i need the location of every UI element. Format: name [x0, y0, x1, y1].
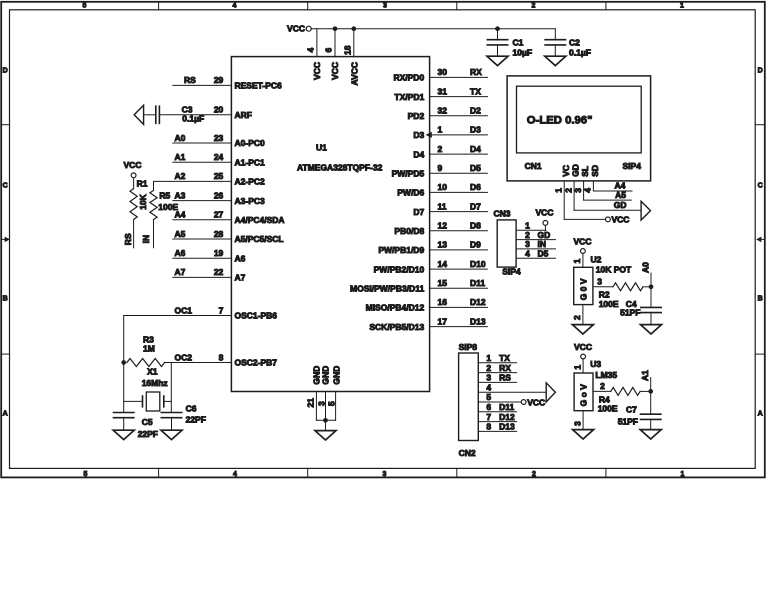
svg-text:15: 15	[438, 278, 448, 288]
svg-text:28: 28	[214, 229, 224, 239]
svg-text:VCC: VCC	[124, 160, 142, 170]
capacitor C3 0.1uF	[156, 106, 204, 123]
svg-text:GND: GND	[331, 366, 341, 385]
U2 pin number 2 (rotated)	[572, 315, 582, 320]
junction A1/C7	[648, 389, 653, 394]
svg-text:25: 25	[214, 171, 224, 181]
CN1 pin 4 wire (SD) to A4	[593, 181, 632, 191]
wire: VCC rail horizontal	[311, 28, 555, 30]
wire: U1 pin 5 GND drop	[335, 392, 337, 421]
U1 right pin 15 MOSI/PW/PB3/D11 / net D11	[350, 278, 487, 293]
ground below C7	[640, 430, 661, 439]
svg-text:3: 3	[572, 421, 582, 426]
pin number 18	[343, 45, 353, 55]
power flag VCC (U2)	[574, 236, 592, 253]
svg-text:2: 2	[532, 2, 536, 9]
wire: GND bus joining	[316, 419, 335, 421]
output port arrow (GD)	[641, 201, 650, 220]
CN2 pin 7 wire	[478, 412, 516, 422]
svg-text:SIP4: SIP4	[623, 161, 642, 171]
svg-text:VCC: VCC	[287, 24, 305, 34]
CN1 pin number 2 (rotated)	[563, 188, 573, 193]
ground below C1	[487, 56, 508, 65]
U1 left pin 19 A6 / net A6	[173, 248, 246, 263]
svg-text:VCC: VCC	[574, 236, 592, 246]
net label GD	[614, 200, 627, 210]
CN3 reference label	[494, 209, 511, 219]
outer border frame	[1, 2, 765, 478]
U3 value label LM35	[595, 370, 617, 380]
svg-text:A3-PC3: A3-PC3	[235, 196, 266, 206]
CN3 pin 4 wire	[516, 248, 555, 258]
svg-text:LM35: LM35	[595, 370, 617, 380]
wire: A2 line corner to R5	[153, 181, 155, 190]
capacitor C1	[487, 26, 532, 57]
svg-text:11: 11	[438, 201, 447, 211]
svg-text:D13: D13	[470, 316, 486, 326]
svg-text:D13: D13	[499, 422, 515, 432]
U3 pin number 1 (rotated)	[572, 365, 582, 370]
net label A4	[615, 181, 626, 191]
svg-text:B: B	[3, 295, 8, 302]
border row letters right	[758, 68, 763, 418]
svg-text:0.1µF: 0.1µF	[569, 48, 591, 58]
svg-text:2: 2	[572, 315, 582, 320]
svg-text:D: D	[3, 68, 8, 75]
inner border frame	[10, 10, 756, 469]
svg-text:1: 1	[680, 2, 684, 9]
svg-text:4: 4	[525, 248, 530, 258]
U1 reference label	[316, 143, 327, 153]
CN1 pin name VC (rotated)	[561, 165, 571, 177]
svg-text:A0: A0	[640, 262, 650, 273]
svg-text:A5/PC5/SCL: A5/PC5/SCL	[235, 234, 284, 244]
svg-text:C1: C1	[513, 38, 524, 48]
U1 right pin 11 D7 / net D7	[413, 201, 487, 216]
CN1 SIP4 label	[623, 161, 642, 171]
svg-text:A2-PC2: A2-PC2	[235, 177, 266, 187]
svg-text:7: 7	[219, 305, 224, 315]
U1 right pin 14 PW/PB2/D10 / net D10	[374, 259, 488, 274]
U1 pin name VCC (pin6, rotated)	[330, 62, 340, 80]
net label A1 (rotated)	[640, 370, 651, 392]
svg-text:SIP8: SIP8	[459, 342, 478, 352]
svg-text:B: B	[758, 295, 763, 302]
O-LED screen inner box	[517, 86, 642, 153]
wire: R5 to IN stub	[153, 220, 155, 248]
svg-text:A0: A0	[175, 133, 186, 143]
svg-text:1: 1	[438, 125, 443, 135]
border column numbers top	[83, 2, 685, 9]
svg-text:1M: 1M	[143, 344, 155, 354]
svg-text:D12: D12	[470, 297, 486, 307]
svg-text:GD: GD	[571, 164, 581, 177]
svg-text:18: 18	[343, 45, 353, 55]
svg-text:2: 2	[486, 363, 491, 373]
svg-text:16Mhz: 16Mhz	[142, 378, 168, 388]
connector CN3 body	[497, 220, 516, 267]
svg-text:R5: R5	[159, 190, 170, 200]
O-LED title	[527, 114, 593, 126]
svg-text:100E: 100E	[598, 404, 618, 414]
CN1 reference label	[525, 161, 542, 171]
svg-text:22PF: 22PF	[186, 415, 206, 425]
svg-text:VCC: VCC	[527, 397, 545, 407]
CN2 pin 5 wire	[478, 392, 521, 402]
svg-text:PB0/D8: PB0/D8	[394, 226, 424, 236]
svg-text:D6: D6	[470, 182, 481, 192]
CN2 SIP8 label	[459, 342, 478, 352]
svg-text:A0-PC0: A0-PC0	[235, 138, 266, 148]
svg-text:1: 1	[572, 365, 582, 370]
svg-text:A: A	[758, 411, 763, 418]
svg-text:RS: RS	[499, 373, 511, 383]
svg-text:RX: RX	[470, 67, 482, 77]
output port arrow (CN2 pin4)	[546, 383, 555, 402]
svg-text:D4: D4	[470, 144, 481, 154]
U1 right pin 12 PB0/D8 / net D8	[394, 221, 487, 236]
power flag VCC (U3)	[574, 342, 592, 359]
svg-text:22PF: 22PF	[138, 429, 158, 439]
U1 right pin 10 PW/D6 / net D6	[397, 182, 487, 197]
CN3 pin 3 wire	[516, 239, 555, 249]
U1 left pin 22 A7 / net A7	[173, 267, 246, 282]
svg-text:GD: GD	[614, 200, 627, 210]
svg-text:4: 4	[306, 48, 316, 53]
svg-text:VCC: VCC	[612, 215, 630, 225]
wire: U1 pin 3 GND drop	[325, 392, 327, 421]
svg-text:U2: U2	[591, 254, 602, 264]
svg-text:10K: 10K	[138, 193, 148, 209]
svg-text:17: 17	[438, 316, 448, 326]
svg-text:OC2: OC2	[175, 352, 193, 362]
svg-text:32: 32	[438, 106, 448, 116]
U1 pin name GND (pin21, rotated)	[312, 366, 322, 385]
U1 left pin 25 A2-PC2 / net A2	[154, 171, 266, 186]
svg-text:C: C	[3, 183, 8, 190]
svg-text:24: 24	[214, 152, 224, 162]
border center arrow right	[756, 237, 765, 243]
svg-text:CN3: CN3	[494, 209, 511, 219]
CN2 pin 4 wire	[478, 382, 546, 392]
svg-text:TX/PD1: TX/PD1	[394, 92, 424, 102]
crystal X1 16Mhz	[124, 366, 172, 411]
svg-text:3: 3	[383, 471, 387, 478]
U1 right pin 9 PW/PD5 / net D5	[392, 163, 488, 178]
capacitor C2	[545, 29, 591, 58]
wire: VCC to R1	[133, 178, 135, 189]
svg-text:VCC: VCC	[312, 62, 322, 80]
svg-text:D5: D5	[470, 163, 481, 173]
svg-text:16: 16	[438, 297, 448, 307]
svg-text:VCC: VCC	[574, 342, 592, 352]
CN3 pin 2 wire	[516, 230, 555, 240]
ground symbol under U1	[315, 431, 336, 440]
svg-text:29: 29	[214, 75, 224, 85]
CN2 pin 8 wire	[478, 422, 516, 432]
resistor R5 100E	[150, 190, 179, 219]
svg-text:X1: X1	[147, 366, 158, 376]
svg-text:D12: D12	[499, 412, 515, 422]
svg-text:MISO/PB4/D12: MISO/PB4/D12	[366, 303, 425, 313]
wire: drop to U1 pin 18	[353, 29, 355, 57]
wire: OSC2 vertical to C6	[170, 363, 172, 413]
CN2 pin 3 wire	[478, 373, 516, 383]
svg-text:5: 5	[486, 392, 491, 402]
svg-text:A4: A4	[615, 181, 626, 191]
U2 pin 3 wire	[593, 277, 613, 287]
junction at pin 6 drop	[333, 26, 338, 31]
svg-text:G o V: G o V	[579, 384, 589, 407]
svg-text:3: 3	[383, 2, 387, 9]
U1 pin name GND (pin5, rotated)	[331, 366, 341, 385]
svg-text:51PF: 51PF	[620, 308, 640, 318]
svg-text:1: 1	[572, 259, 582, 264]
U3 pin number 3 (rotated)	[572, 421, 582, 426]
power flag VCC (CN1)	[606, 215, 630, 225]
svg-text:VCC: VCC	[330, 62, 340, 80]
wire: U1 pin 21 GND drop	[315, 392, 317, 421]
svg-text:RX/PD0: RX/PD0	[393, 73, 424, 83]
U1 left pin 28 A5/PC5/SCL / net A5	[173, 229, 284, 244]
svg-text:D3: D3	[413, 130, 424, 140]
border column numbers bottom	[84, 471, 685, 478]
U2 pin 2 wire to ground	[582, 305, 584, 325]
svg-text:ATMEGA328TQPF-32: ATMEGA328TQPF-32	[297, 162, 383, 172]
svg-text:GND: GND	[321, 366, 331, 385]
U2 value label 10K POT	[596, 264, 632, 274]
U1 right pin 30 RX/PD0 / net RX	[393, 67, 487, 82]
U1 left pin 27 A4/PC4/SDA / net A4	[173, 210, 285, 225]
connector CN2 body	[459, 353, 479, 441]
svg-text:8: 8	[486, 422, 491, 432]
input port arrow (ARF)	[134, 105, 143, 124]
svg-text:5: 5	[83, 2, 87, 9]
svg-text:26: 26	[214, 190, 224, 200]
svg-text:RS: RS	[184, 75, 196, 85]
svg-text:D3: D3	[470, 125, 481, 135]
CN1 pin number 4 (rotated)	[583, 188, 593, 193]
wire: drop to U1 pin 6	[334, 29, 336, 57]
svg-text:C2: C2	[569, 38, 580, 48]
svg-text:20: 20	[214, 105, 224, 115]
svg-text:C7: C7	[626, 405, 637, 415]
svg-text:2: 2	[600, 381, 605, 391]
CN1 pin 2 wire (GD)	[574, 181, 641, 210]
CN1 pin name SD (rotated)	[590, 165, 600, 177]
svg-text:0.1µF: 0.1µF	[182, 114, 204, 124]
U1 pin name GND (pin3, rotated)	[321, 366, 331, 385]
svg-text:MOSI/PW/PB3/D11: MOSI/PW/PB3/D11	[350, 284, 424, 294]
svg-text:R1: R1	[137, 178, 148, 188]
svg-text:4: 4	[233, 2, 237, 9]
net label A5	[615, 190, 626, 200]
CN2 pin 6 wire	[478, 402, 516, 412]
svg-text:D5: D5	[538, 248, 549, 258]
U1 left pin 20 ARF	[159, 105, 252, 120]
power flag VCC (CN3 pin1)	[536, 207, 554, 230]
svg-text:3: 3	[573, 188, 583, 193]
svg-text:PW/PB1/D9: PW/PB1/D9	[378, 245, 424, 255]
svg-text:1: 1	[553, 188, 563, 193]
svg-text:SD: SD	[590, 165, 600, 177]
U1 right pin 31 TX/PD1 / net TX	[394, 86, 487, 101]
CN1 pin 3 wire (SL) to A5	[584, 181, 632, 200]
svg-text:D9: D9	[470, 240, 481, 250]
svg-text:7: 7	[486, 412, 491, 422]
svg-text:4: 4	[486, 382, 491, 392]
svg-text:D4: D4	[413, 149, 424, 159]
svg-text:U1: U1	[316, 143, 327, 153]
CN1 pin 1 wire (VC) to VCC	[564, 181, 605, 220]
U1 right pin 16 MISO/PB4/D12 / net D12	[366, 297, 488, 312]
svg-text:31: 31	[438, 86, 448, 96]
svg-text:ARF: ARF	[235, 110, 252, 120]
U2 reference label	[591, 254, 602, 264]
svg-text:RX: RX	[499, 363, 511, 373]
svg-text:C6: C6	[186, 403, 197, 413]
U1 right pin 2 D4 / net D4	[413, 144, 487, 159]
svg-text:VC: VC	[561, 165, 571, 177]
svg-text:A7: A7	[175, 267, 186, 277]
U1 right pin 1 D3 / net D3	[413, 125, 487, 140]
ground below C2	[545, 56, 566, 65]
wire: VCC to U2 pin1	[582, 253, 584, 267]
svg-text:U3: U3	[590, 359, 601, 369]
svg-text:D11: D11	[499, 402, 514, 412]
U3 pin 3 wire to ground	[582, 411, 584, 430]
svg-text:10K POT: 10K POT	[596, 264, 632, 274]
svg-text:5: 5	[84, 471, 88, 478]
svg-text:1: 1	[681, 471, 685, 478]
U1 left pin 23 A0-PC0 / net A0	[173, 133, 265, 148]
wire: R1 to RS stub	[133, 220, 135, 248]
CN1 pin name SL (rotated)	[580, 166, 590, 177]
svg-text:2: 2	[532, 471, 536, 478]
svg-text:A6: A6	[235, 253, 246, 263]
svg-text:2: 2	[563, 188, 573, 193]
svg-text:OSC2-PB7: OSC2-PB7	[235, 358, 278, 368]
svg-text:RESET-PC6: RESET-PC6	[235, 81, 283, 91]
svg-text:D10: D10	[470, 259, 486, 269]
svg-text:A1-PC1: A1-PC1	[235, 157, 266, 167]
svg-text:AVCC: AVCC	[350, 62, 360, 85]
svg-text:8: 8	[219, 352, 224, 362]
net label IN (rotated)	[141, 235, 151, 244]
CN2 pin 1 wire	[478, 353, 516, 363]
pin number 3 (rotated)	[316, 401, 326, 406]
svg-text:6: 6	[486, 402, 491, 412]
svg-text:1: 1	[486, 353, 491, 363]
svg-text:A1: A1	[175, 152, 186, 162]
wire: drop to U1 pin 4	[316, 29, 318, 57]
junction R3/OSC rail	[121, 360, 126, 365]
svg-text:27: 27	[214, 210, 224, 220]
capacitor C5 22PF	[114, 413, 159, 440]
svg-text:21: 21	[305, 398, 315, 408]
junction A0/C4	[649, 284, 654, 289]
sensor U3 body	[574, 373, 593, 411]
svg-text:A4/PC4/SDA: A4/PC4/SDA	[235, 215, 285, 225]
net label RS (rotated)	[123, 233, 133, 245]
U1 left pin 24 A1-PC1 / net A1	[173, 152, 265, 167]
svg-text:2: 2	[438, 144, 443, 154]
U1 left pin 26 A3-PC3 / net A3	[173, 190, 265, 205]
svg-text:A1: A1	[640, 370, 650, 381]
svg-text:D: D	[758, 68, 763, 75]
CN1 pin name GD (rotated)	[571, 164, 581, 177]
CN2 reference label	[459, 448, 476, 458]
svg-text:CN2: CN2	[459, 448, 476, 458]
U1 right pin 32 PD2 / net D2	[408, 106, 488, 121]
svg-text:10: 10	[438, 182, 448, 192]
pin number 6	[324, 48, 334, 53]
pin number 21 (rotated)	[305, 398, 315, 408]
svg-text:G 0 V: G 0 V	[578, 278, 588, 300]
ground below C6	[161, 430, 182, 439]
svg-text:PD2: PD2	[408, 111, 425, 121]
resistor R3 1M	[127, 334, 165, 366]
svg-text:A5: A5	[175, 229, 186, 239]
U1 pin name VCC (pin4, rotated)	[312, 62, 322, 80]
border center arrow left	[1, 237, 10, 243]
CN1 pin number 3 (rotated)	[573, 188, 583, 193]
svg-text:PW/PB2/D10: PW/PB2/D10	[374, 264, 425, 274]
svg-text:VCC: VCC	[536, 207, 554, 217]
U1 left pin 7 OSC1-PB6 / net OC1	[124, 305, 278, 320]
junction at pin 18 drop	[351, 26, 356, 31]
svg-text:SIP4: SIP4	[502, 266, 521, 276]
svg-text:TX: TX	[470, 86, 481, 96]
svg-text:A7: A7	[235, 273, 246, 283]
net label A0 (rotated)	[640, 262, 651, 287]
svg-text:A3: A3	[175, 190, 186, 200]
svg-text:PW/D6: PW/D6	[397, 188, 424, 198]
ground below C4	[641, 325, 662, 334]
U1 pin name AVCC (pin18, rotated)	[350, 62, 360, 85]
svg-text:A6: A6	[175, 248, 186, 258]
wire: VCC to U3 pin1	[582, 359, 584, 373]
svg-text:9: 9	[438, 163, 443, 173]
capacitor C6 22PF	[161, 403, 206, 430]
svg-text:3: 3	[597, 277, 602, 287]
IC U1 ATMEGA328TQPF-32 body	[231, 57, 429, 392]
resistor R4 100E	[598, 387, 651, 413]
svg-text:D7: D7	[470, 201, 481, 211]
capacitor C4 51PF	[620, 287, 661, 325]
power flag VCC (R1)	[124, 160, 142, 178]
svg-text:C: C	[758, 183, 763, 190]
svg-text:D8: D8	[470, 221, 481, 231]
svg-text:TX: TX	[499, 353, 510, 363]
CN3 SIP4 label	[502, 266, 521, 276]
svg-text:PW/PD5: PW/PD5	[392, 168, 425, 178]
ground below C5	[113, 430, 134, 439]
power flag VCC (CN2 pin5)	[521, 397, 545, 407]
svg-text:CN1: CN1	[525, 161, 542, 171]
pin number 5 (rotated)	[327, 401, 337, 406]
svg-text:O-LED 0.96": O-LED 0.96"	[527, 114, 593, 126]
svg-text:23: 23	[214, 133, 224, 143]
svg-text:D2: D2	[470, 106, 481, 116]
pin number 4	[306, 48, 316, 53]
U3 pin 2 wire	[593, 381, 611, 391]
U3 reference label	[590, 359, 601, 369]
svg-text:51PF: 51PF	[618, 416, 638, 426]
resistor R2 100E	[599, 283, 651, 309]
svg-text:12: 12	[438, 221, 448, 231]
svg-text:6: 6	[324, 48, 334, 53]
